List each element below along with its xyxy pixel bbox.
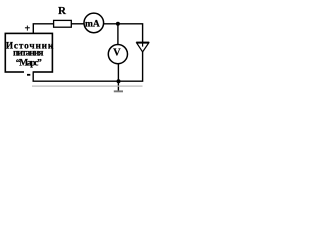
svg-text:“Марс”: “Марс” [16,57,42,68]
svg-text:R: R [58,5,67,17]
svg-text:V: V [113,47,121,58]
svg-text:mA: mA [85,19,100,29]
svg-text:питания: питания [13,48,44,58]
svg-text:+: + [24,23,30,34]
